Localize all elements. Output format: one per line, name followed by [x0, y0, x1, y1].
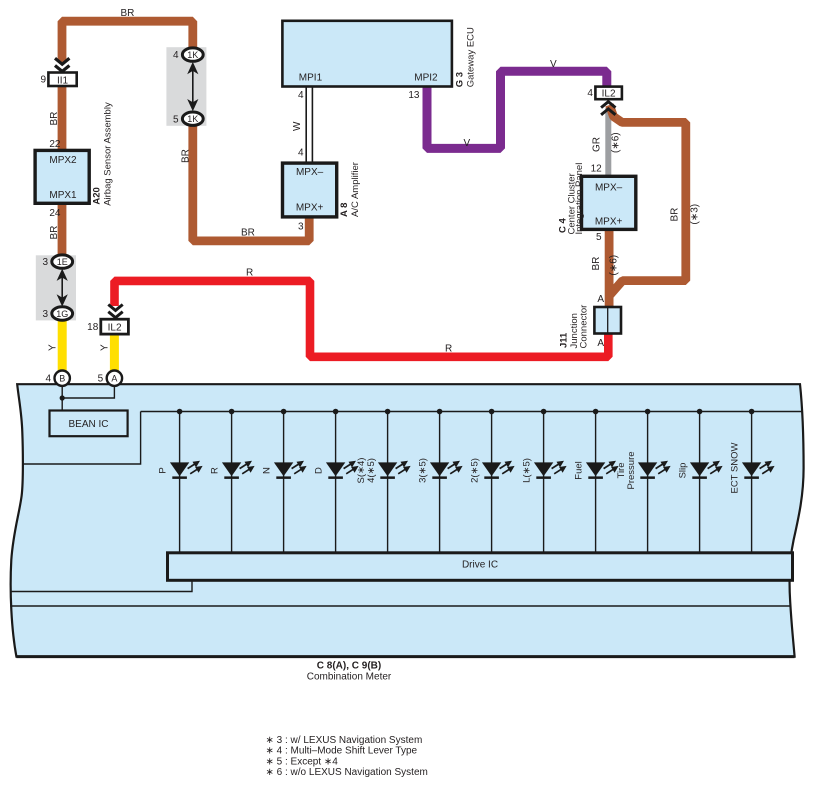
meter bottom edge — [16, 655, 794, 658]
label Airbag Sensor Assembly — [103, 102, 114, 206]
wire label BR below 1K — [181, 149, 192, 163]
shield box 1K/1K — [166, 47, 206, 126]
svg-text:B: B — [59, 374, 65, 384]
label Gateway ECU — [466, 27, 477, 87]
svg-text:MPX2: MPX2 — [49, 155, 77, 166]
svg-text:∗ 3 : w/ LEXUS Navigation Syst: ∗ 3 : w/ LEXUS Navigation System — [266, 735, 423, 746]
svg-text:∗ 5 : Except ∗4: ∗ 5 : Except ∗4 — [266, 756, 339, 767]
label J11 — [559, 332, 570, 348]
indicator LED Fuel — [574, 409, 619, 553]
connector 1K pin 5 — [173, 112, 203, 125]
pin 4 label A/C amp — [298, 148, 304, 159]
ECU G3 Gateway ECU — [282, 21, 452, 87]
svg-text:24: 24 — [49, 208, 61, 219]
footnote *3 — [266, 735, 423, 746]
pin 4 label MPI1 — [298, 90, 304, 101]
svg-text:R: R — [246, 268, 253, 279]
svg-text:BR: BR — [181, 149, 192, 163]
svg-text:5: 5 — [173, 114, 179, 125]
svg-text:5: 5 — [596, 232, 602, 243]
wire from terminal B to BEAN IC — [61, 385, 63, 411]
label A/C Amplifier — [350, 162, 361, 217]
meter caption C 8(A), C 9(B) Combination Meter — [307, 661, 392, 683]
svg-text:1G: 1G — [56, 309, 68, 319]
svg-text:Integration Panel: Integration Panel — [574, 163, 585, 235]
svg-text:4: 4 — [173, 50, 179, 61]
svg-text:BR: BR — [49, 226, 60, 240]
pin 13 label MPI2 — [408, 90, 420, 101]
svg-text:BR: BR — [241, 228, 255, 239]
connector II1 pin 9 — [40, 73, 76, 87]
label Junction — [569, 313, 580, 348]
svg-text:4: 4 — [298, 148, 304, 159]
junction dot at B/A wire join — [60, 395, 65, 400]
wire label V upper — [550, 59, 557, 70]
pin 12 label C4 — [591, 164, 603, 175]
svg-text:A: A — [597, 338, 604, 349]
svg-text:ECT SNOW: ECT SNOW — [730, 442, 741, 493]
label Integration Panel — [574, 163, 585, 235]
ECU C4 Center Cluster Integration Panel — [582, 176, 636, 229]
LED supply bus wire — [141, 411, 802, 413]
brown wire BR: II1 up over to connector 1K pin 4 — [62, 21, 193, 62]
svg-text:BR: BR — [49, 112, 60, 126]
brown wire BR: II1 to MPX2 pin 22 — [58, 86, 67, 151]
svg-text:Connector: Connector — [579, 305, 590, 349]
gray wire GR: IL2 to C4 MPX- pin 12 — [605, 108, 611, 177]
internal wire along left at y=464 — [22, 412, 141, 465]
svg-text:V: V — [550, 59, 557, 70]
svg-text:D: D — [314, 467, 325, 474]
svg-text:Drive IC: Drive IC — [462, 560, 498, 571]
footnote *4 — [266, 746, 418, 757]
svg-text:IL2: IL2 — [108, 323, 122, 334]
violet wire V: MPI2 to IL2 pin 4 — [427, 71, 607, 148]
brown wire BR: MPX1 pin 24 to connector 1E — [58, 203, 67, 257]
terminal B pin 4 — [45, 371, 69, 386]
indicator LED 2(∗5) — [470, 409, 515, 553]
indicator LED R — [210, 409, 255, 553]
connector 1G pin 3 — [42, 307, 72, 320]
svg-text:(∗3): (∗3) — [690, 204, 701, 225]
wire label BR top — [121, 8, 135, 19]
svg-text:IL2: IL2 — [602, 89, 616, 100]
ECU A8 A/C Amplifier — [283, 163, 337, 217]
svg-text:MPX–: MPX– — [595, 182, 623, 193]
svg-text:2(∗5): 2(∗5) — [470, 458, 481, 483]
svg-text:MPX1: MPX1 — [49, 190, 77, 201]
svg-text:5: 5 — [98, 374, 104, 385]
brown wire BR (*6): C4 MPX+ pin 5 to junction J11 — [605, 229, 614, 308]
svg-text:3: 3 — [298, 221, 304, 232]
brown wire BR: 1K pin 5 down, right, up to A/C amp pin 3 — [193, 124, 309, 241]
wire label BR on horizontal to A/C amp — [241, 228, 255, 239]
wire label (*6) below C4 — [609, 255, 620, 276]
svg-text:W: W — [292, 121, 303, 131]
wire label W — [292, 121, 303, 131]
pin A label above J11 — [597, 294, 604, 305]
svg-text:A/C Amplifier: A/C Amplifier — [350, 162, 361, 217]
svg-text:MPI1: MPI1 — [299, 73, 323, 84]
svg-text:II1: II1 — [57, 75, 69, 86]
svg-text:Y: Y — [100, 344, 111, 351]
double arrow between 1E and 1G — [57, 269, 68, 307]
svg-text:12: 12 — [591, 164, 603, 175]
chevron arrow into II1 — [55, 58, 69, 71]
label G 3 — [455, 72, 466, 87]
wire label (*6) on GR — [611, 132, 622, 153]
svg-text:Y: Y — [48, 344, 59, 351]
svg-text:BEAN IC: BEAN IC — [68, 419, 108, 430]
wire from terminal A joining B wire — [62, 385, 114, 398]
svg-text:GR: GR — [592, 137, 603, 152]
svg-text:1K: 1K — [187, 50, 198, 60]
svg-text:MPI2: MPI2 — [414, 73, 438, 84]
combination meter C8/C9 body outline — [11, 384, 804, 656]
svg-text:3: 3 — [42, 309, 48, 320]
svg-text:L(∗5): L(∗5) — [522, 458, 533, 483]
svg-text:4(∗5): 4(∗5) — [366, 458, 377, 483]
footnote *5 — [266, 756, 339, 767]
label C 4 — [558, 218, 569, 234]
svg-text:A: A — [111, 374, 117, 384]
wire label R lower — [445, 344, 452, 355]
svg-text:Gateway ECU: Gateway ECU — [466, 27, 477, 87]
indicator LED Tire Pressure — [616, 409, 671, 553]
pin A label below J11 — [597, 338, 604, 349]
wire label BR left vertical — [49, 112, 60, 126]
yellow wire Y: IL2 to terminal A — [110, 334, 119, 372]
svg-text:V: V — [464, 138, 471, 149]
indicator LED ECT SNOW — [730, 409, 775, 553]
shield box 1E/1G — [36, 255, 76, 320]
svg-text:Airbag Sensor Assembly: Airbag Sensor Assembly — [103, 102, 114, 206]
svg-text:3: 3 — [42, 257, 48, 268]
svg-text:Slip: Slip — [678, 463, 689, 479]
svg-text:(∗6): (∗6) — [609, 255, 620, 276]
svg-text:∗ 6 : w/o LEXUS Navigation Sys: ∗ 6 : w/o LEXUS Navigation System — [266, 767, 428, 778]
svg-text:MPX–: MPX– — [296, 167, 324, 178]
wire label Y right — [100, 344, 111, 351]
indicator LED 3(∗5) — [418, 409, 463, 553]
wire label BR below C4 — [591, 257, 602, 271]
svg-text:13: 13 — [408, 90, 420, 101]
indicator LED D — [314, 409, 359, 553]
Drive IC box — [168, 553, 793, 581]
yellow wire Y: 1G to terminal B — [58, 319, 67, 372]
svg-text:Fuel: Fuel — [574, 461, 585, 479]
connector 1K pin 4 — [173, 48, 203, 61]
svg-text:G 3: G 3 — [455, 72, 466, 87]
connector IL2 pin 4 (top right) — [587, 87, 622, 100]
pin 22 label — [49, 139, 61, 150]
wire label BR below MPX1 — [49, 226, 60, 240]
svg-text:BR: BR — [121, 8, 135, 19]
svg-text:R: R — [210, 467, 221, 474]
indicator LED Slip — [678, 409, 723, 553]
svg-text:Pressure: Pressure — [626, 451, 637, 489]
chevron arrow into IL2 (red wire end) — [108, 305, 122, 318]
junction connector J11 — [594, 307, 621, 334]
wire label (*3) — [690, 204, 701, 225]
wire label BR right loop — [670, 208, 681, 222]
svg-text:∗ 4 : Multi–Mode Shift Lever T: ∗ 4 : Multi–Mode Shift Lever Type — [266, 746, 418, 757]
red wire R: junction J11 to IL2 pin 18 — [115, 281, 609, 357]
svg-text:BR: BR — [670, 208, 681, 222]
label A20 — [92, 187, 103, 204]
label Center Cluster — [567, 173, 578, 234]
wire label GR — [592, 137, 603, 152]
svg-text:4: 4 — [587, 88, 593, 99]
svg-text:(∗6): (∗6) — [611, 132, 622, 153]
chevron arrow out of IL2 upward — [601, 102, 615, 115]
svg-text:9: 9 — [40, 75, 46, 86]
internal full-width wire at y=606 — [10, 605, 791, 607]
wire label Y left — [48, 344, 59, 351]
pin 5 label C4 — [596, 232, 602, 243]
brown wire BR (*3): IL2 loop to junction J11 — [610, 105, 686, 296]
wire label V lower — [464, 138, 471, 149]
svg-text:18: 18 — [87, 322, 99, 333]
indicator LED P — [158, 409, 203, 553]
svg-text:4: 4 — [298, 90, 304, 101]
white wire W: MPI1 to A/C amp (double line) — [306, 87, 312, 164]
svg-text:P: P — [158, 467, 169, 473]
footnote *6 — [266, 767, 428, 778]
svg-text:MPX+: MPX+ — [595, 216, 623, 227]
svg-text:J11: J11 — [559, 332, 570, 348]
connector IL2 pin 18 (left) — [87, 319, 128, 334]
svg-text:Combination Meter: Combination Meter — [307, 672, 392, 683]
svg-text:A 8: A 8 — [339, 203, 350, 217]
connector 1E pin 3 — [42, 255, 72, 268]
wire label R upper — [246, 268, 253, 279]
double arrow between 1K connectors — [187, 62, 198, 111]
svg-text:4: 4 — [45, 374, 51, 385]
svg-text:BR: BR — [591, 257, 602, 271]
BEAN IC box — [50, 411, 128, 437]
svg-text:MPX+: MPX+ — [296, 202, 324, 213]
svg-text:R: R — [445, 344, 452, 355]
terminal A pin 5 — [98, 371, 122, 386]
label A 8 — [339, 203, 350, 217]
svg-text:1K: 1K — [187, 114, 198, 124]
pin 24 label — [49, 208, 61, 219]
svg-text:1E: 1E — [57, 257, 68, 267]
indicator LED N — [262, 409, 307, 553]
pin 3 label A/C amp — [298, 221, 304, 232]
ECU A20 Airbag Sensor Assembly — [35, 150, 89, 203]
indicator LED L(∗5) — [522, 409, 567, 553]
internal step wire below Drive IC — [11, 580, 192, 592]
svg-text:A: A — [597, 294, 604, 305]
svg-text:A20: A20 — [92, 187, 103, 204]
svg-text:3(∗5): 3(∗5) — [418, 458, 429, 483]
svg-text:C 8(A), C 9(B): C 8(A), C 9(B) — [317, 661, 381, 672]
svg-text:22: 22 — [49, 139, 61, 150]
indicator LED S(∗4) 4(∗5) — [356, 409, 411, 553]
label Connector — [579, 305, 590, 349]
svg-text:N: N — [262, 467, 273, 474]
